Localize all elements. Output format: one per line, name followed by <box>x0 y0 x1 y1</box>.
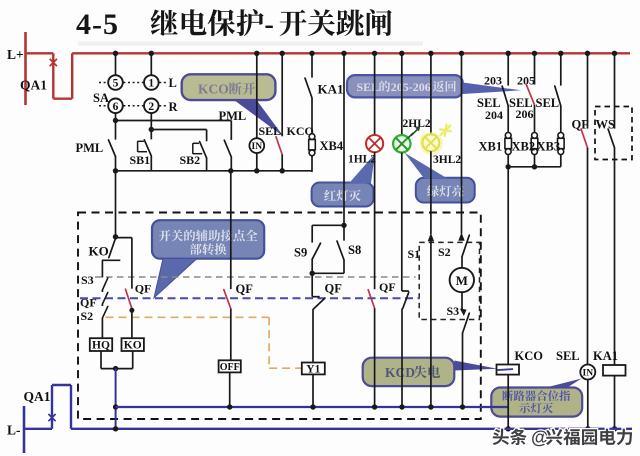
svg-text:SEL: SEL <box>556 349 580 363</box>
svg-text:WS: WS <box>596 117 616 131</box>
svg-text:QA1: QA1 <box>20 78 47 93</box>
wire node line y171 <box>113 168 312 173</box>
svg-text:XB2: XB2 <box>512 139 536 153</box>
svg-text:SEL: SEL <box>259 124 282 138</box>
contact WS <box>596 53 616 365</box>
switch SA contact 6-2 <box>99 99 166 130</box>
terminal L+ <box>7 32 26 105</box>
connector XB1 <box>479 133 512 167</box>
svg-text:SB1: SB1 <box>130 153 151 167</box>
wire to KCO coil <box>507 167 509 365</box>
contact QF (left column) <box>80 290 108 309</box>
pushbutton SB1 <box>130 130 152 171</box>
contact PML (left) <box>76 121 116 171</box>
wire HQ/KO join to negative <box>101 351 133 429</box>
coil OFF <box>219 360 241 407</box>
indicator SEL (IN) lower <box>556 349 595 432</box>
callout 红灯灭 <box>312 154 375 207</box>
svg-text:Y1: Y1 <box>306 363 320 375</box>
svg-text:QF: QF <box>80 296 97 310</box>
svg-text:SB2: SB2 <box>180 153 201 167</box>
terminal L- <box>7 406 24 453</box>
coil KO <box>122 338 144 351</box>
svg-text:XB4: XB4 <box>320 139 344 153</box>
contact QF (red, right) <box>572 53 590 364</box>
svg-text:SEL: SEL <box>536 96 560 110</box>
title 4-5 继电保护-开关跳闸 <box>76 8 423 46</box>
wire inner negative bus <box>116 404 508 409</box>
svg-text:KO: KO <box>89 244 109 259</box>
svg-text:S3: S3 <box>81 273 94 287</box>
wire L+ bus <box>72 52 630 54</box>
contact S3 (left column) <box>81 260 108 290</box>
svg-text:XB1: XB1 <box>479 139 503 153</box>
wire node row y120 <box>113 118 232 123</box>
wire L- bus <box>71 426 632 431</box>
svg-text:KCD: KCD <box>385 365 415 380</box>
svg-text:SEL: SEL <box>357 80 380 94</box>
svg-text:QF: QF <box>379 280 396 294</box>
callout KCD失电 <box>363 358 498 386</box>
svg-text:L: L <box>169 76 177 90</box>
svg-text:HQ: HQ <box>92 340 110 352</box>
watermark 头条@兴福园电力 <box>493 428 632 448</box>
contact KCO (red, opened) <box>276 53 282 171</box>
contact QF (column 1HL2, red) <box>368 152 395 407</box>
connector XB4 <box>309 134 344 172</box>
svg-text:S1: S1 <box>408 247 421 261</box>
contact S1 (column 3HL2) <box>408 151 435 407</box>
contact QF (column OFF, red) <box>224 171 253 360</box>
svg-text:PML: PML <box>76 141 104 155</box>
switch SA contact 5-1 <box>99 53 166 89</box>
svg-text:IN: IN <box>252 142 263 152</box>
contact S2 (left column) <box>81 304 108 338</box>
contact SEL (third) <box>536 53 561 132</box>
coil Y1 <box>302 363 325 408</box>
wire column from bus to S8/S9 <box>312 53 346 228</box>
svg-text:PML: PML <box>219 109 247 123</box>
svg-text:S2: S2 <box>81 309 94 323</box>
svg-text:QF: QF <box>325 281 343 295</box>
callout 绿灯亮 <box>405 153 475 203</box>
svg-text:4-5: 4-5 <box>76 8 119 41</box>
contact S2 and motor M <box>438 53 474 292</box>
connector XB2 <box>512 133 538 167</box>
contact KO and junction <box>89 171 121 260</box>
svg-text:L+: L+ <box>7 47 24 62</box>
contact SEL 203-204 <box>477 53 508 132</box>
dashed enclosure (motor box S1 S2 M S3) <box>419 242 479 319</box>
svg-text:QA1: QA1 <box>24 389 51 404</box>
dashed linkage line (gray) <box>95 276 416 278</box>
dashed linkage line (blue) <box>80 297 420 299</box>
callout 开关的辅助接点全部转换 <box>152 220 264 298</box>
callout SEL的205-206返回 <box>347 75 521 97</box>
svg-text:QF: QF <box>236 282 254 296</box>
dashed enclosure (control circuit box) <box>78 213 481 420</box>
svg-text:S2: S2 <box>438 245 451 259</box>
lamp 2HL2 (green, lit) <box>393 53 431 152</box>
svg-text:2: 2 <box>148 101 154 113</box>
svg-text:204: 204 <box>485 108 503 122</box>
svg-text:OFF: OFF <box>220 362 240 373</box>
svg-text:206: 206 <box>516 107 534 121</box>
svg-text:S8: S8 <box>348 243 361 257</box>
svg-text:KA1: KA1 <box>318 82 344 97</box>
contact QF (column Y1) <box>312 273 342 362</box>
wire node row y129 <box>149 127 207 132</box>
lamp 3HL2 (yellow, lit) <box>420 53 462 166</box>
disconnector QA1 (positive side) <box>20 53 72 98</box>
svg-text:203: 203 <box>484 74 502 88</box>
svg-text:KA1: KA1 <box>593 349 618 363</box>
svg-text:S3: S3 <box>447 304 460 318</box>
svg-text:1: 1 <box>148 78 154 90</box>
svg-text:KCO: KCO <box>515 349 544 363</box>
junctions on L+ bus <box>113 51 617 56</box>
svg-text:XB3: XB3 <box>537 139 561 153</box>
svg-text:-: - <box>264 10 274 41</box>
contact SEL 205-206 (red, returned) <box>509 53 535 132</box>
contact QF (column 2HL2) <box>402 153 409 408</box>
contact QF (column KO coil, red) <box>116 238 152 339</box>
lamp 1HL2 (red) <box>348 53 383 165</box>
svg-text:3HL2: 3HL2 <box>433 154 461 166</box>
svg-text:S9: S9 <box>294 246 307 260</box>
connector XB3 <box>537 133 565 167</box>
svg-text:R: R <box>169 100 179 114</box>
disconnector QA1 (negative side) <box>24 385 72 429</box>
contact PML (second) <box>219 109 247 171</box>
coil KA1 <box>593 349 626 432</box>
svg-text:205-206: 205-206 <box>391 80 431 94</box>
svg-text:M: M <box>456 273 468 288</box>
svg-text:IN: IN <box>583 369 594 379</box>
coil KCO <box>497 349 544 432</box>
svg-text:KO: KO <box>124 340 142 352</box>
contact S9 <box>294 225 321 273</box>
callout KCO断开 <box>182 74 284 136</box>
callout 断路器合位指示灯灭 <box>491 379 582 417</box>
indicator SEL (IN) upper <box>249 53 264 171</box>
svg-text:6: 6 <box>113 101 119 113</box>
wire S8/S9 bottom join <box>310 271 345 276</box>
dashed linkage line (orange, to Y1) <box>106 317 302 368</box>
contact KA1 <box>305 53 344 133</box>
svg-text:5: 5 <box>113 78 119 90</box>
contact S8 <box>337 225 361 273</box>
dashed enclosure WS <box>595 107 632 160</box>
coil HQ <box>90 338 112 351</box>
svg-text:SA: SA <box>93 91 109 105</box>
contact S3 (below motor) <box>447 292 470 407</box>
svg-text:1HL2: 1HL2 <box>348 154 376 166</box>
svg-text:KCO: KCO <box>198 82 229 97</box>
svg-text:QF: QF <box>135 282 152 296</box>
pushbutton SB2 <box>180 130 207 171</box>
wire XB join <box>506 164 561 169</box>
svg-text:L-: L- <box>7 423 21 438</box>
